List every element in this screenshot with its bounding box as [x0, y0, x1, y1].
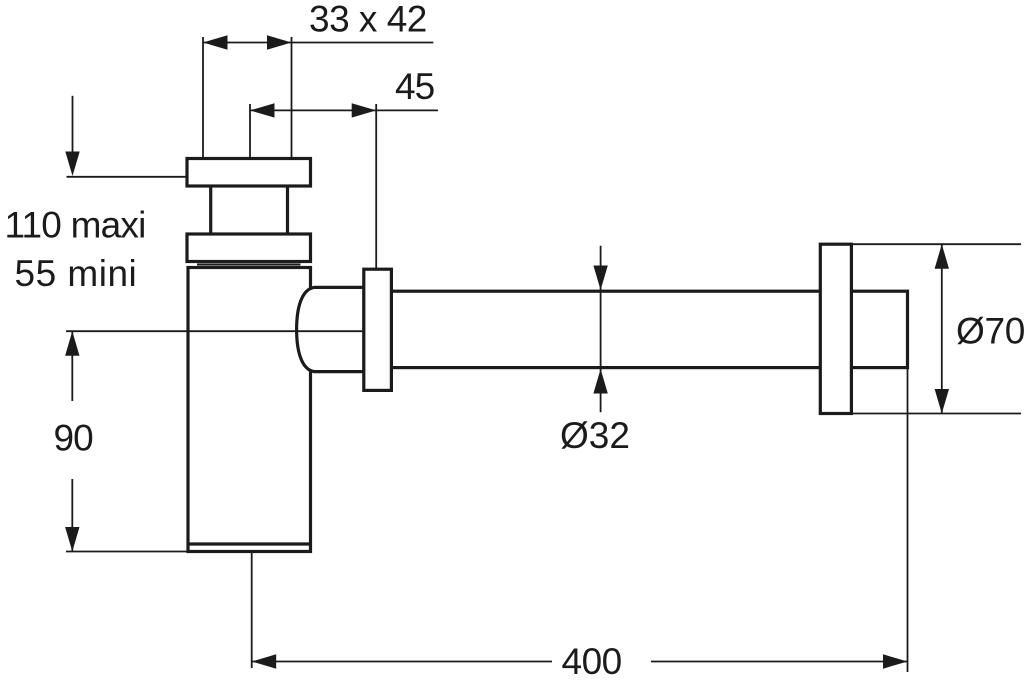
inlet tube sides	[209, 185, 212, 235]
dim 45 extension line left	[249, 104, 251, 158]
dim 33x42 arrow right	[267, 35, 292, 49]
dim 33x42 line	[203, 42, 433, 44]
dim 90 bottom extension	[66, 551, 188, 553]
pipe slip-nut flange	[364, 269, 392, 390]
dim 33x42 arrow left	[203, 35, 228, 49]
pipe axis center line	[66, 330, 364, 332]
dim O70 arrow bottom	[935, 389, 949, 414]
body bottom inner line	[188, 542, 311, 545]
dim 45 line	[250, 109, 438, 111]
dim 90 line upper	[71, 331, 73, 401]
dim O32 arrow bottom	[593, 369, 607, 394]
dim O70 top extension	[851, 243, 1021, 245]
height reference arrow head	[65, 152, 79, 177]
elbow outlet (rounded end)	[297, 287, 364, 371]
dim 400 line left segment	[252, 661, 552, 663]
dim O32 arrow top	[593, 266, 607, 291]
svg-text:110 maxi: 110 maxi	[5, 205, 146, 246]
dim 400 right extension	[907, 368, 909, 672]
dim O32 line	[600, 246, 602, 412]
trap body cup	[188, 268, 311, 552]
top flange	[187, 159, 311, 187]
horizontal pipe	[389, 291, 908, 367]
dim O70 bottom extension	[851, 413, 1021, 415]
dim 400 left extension	[251, 553, 253, 668]
dim 400 arrow right	[883, 654, 908, 668]
svg-text:45: 45	[395, 66, 435, 107]
dim 33x42 extension line left	[202, 37, 204, 158]
dim 45 extension line right	[375, 104, 377, 269]
dim 400 line right segment	[651, 661, 908, 663]
wall flange	[820, 244, 851, 413]
svg-text:55 mini: 55 mini	[15, 253, 138, 294]
svg-text:400: 400	[562, 641, 622, 682]
height reference leader	[67, 176, 188, 178]
dim 90 arrow bottom	[65, 527, 79, 552]
dim 45 arrow right	[352, 103, 377, 117]
dim 45 arrow left	[250, 103, 275, 117]
dim 400 arrow left	[252, 654, 277, 668]
washer line	[197, 264, 301, 266]
height reference arrow line	[72, 96, 74, 160]
dim O70 line	[941, 244, 943, 413]
svg-text:90: 90	[54, 418, 94, 459]
dim 33x42 extension line right	[291, 37, 293, 158]
dim O70 arrow top	[935, 244, 949, 269]
svg-text:33 x 42: 33 x 42	[309, 0, 427, 40]
lock nut	[187, 234, 311, 262]
dim 90 arrow top	[65, 331, 79, 356]
dim 90 line lower	[71, 479, 73, 552]
svg-text:Ø32: Ø32	[560, 415, 630, 456]
svg-text:Ø70: Ø70	[956, 311, 1024, 352]
